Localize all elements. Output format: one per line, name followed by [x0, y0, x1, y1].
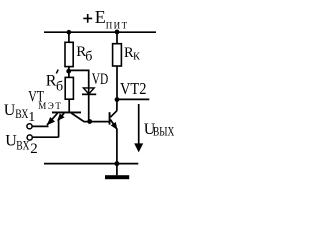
svg-text:б: б	[85, 50, 92, 65]
svg-text:ВХ: ВХ	[15, 106, 29, 121]
svg-text:ПИТ: ПИТ	[106, 20, 128, 30]
svg-text:ВЫХ: ВЫХ	[153, 125, 174, 139]
svg-text:VD: VD	[92, 71, 109, 88]
svg-text:б: б	[56, 79, 63, 94]
svg-text:2: 2	[30, 141, 38, 157]
svg-text:ВХ: ВХ	[16, 137, 30, 152]
svg-text:МЭТ: МЭТ	[38, 101, 61, 111]
svg-text:U: U	[4, 102, 16, 119]
svg-text:1: 1	[28, 110, 35, 125]
svg-text:VT2: VT2	[120, 79, 146, 98]
svg-text:К: К	[133, 52, 141, 63]
svg-text:E: E	[95, 7, 106, 27]
